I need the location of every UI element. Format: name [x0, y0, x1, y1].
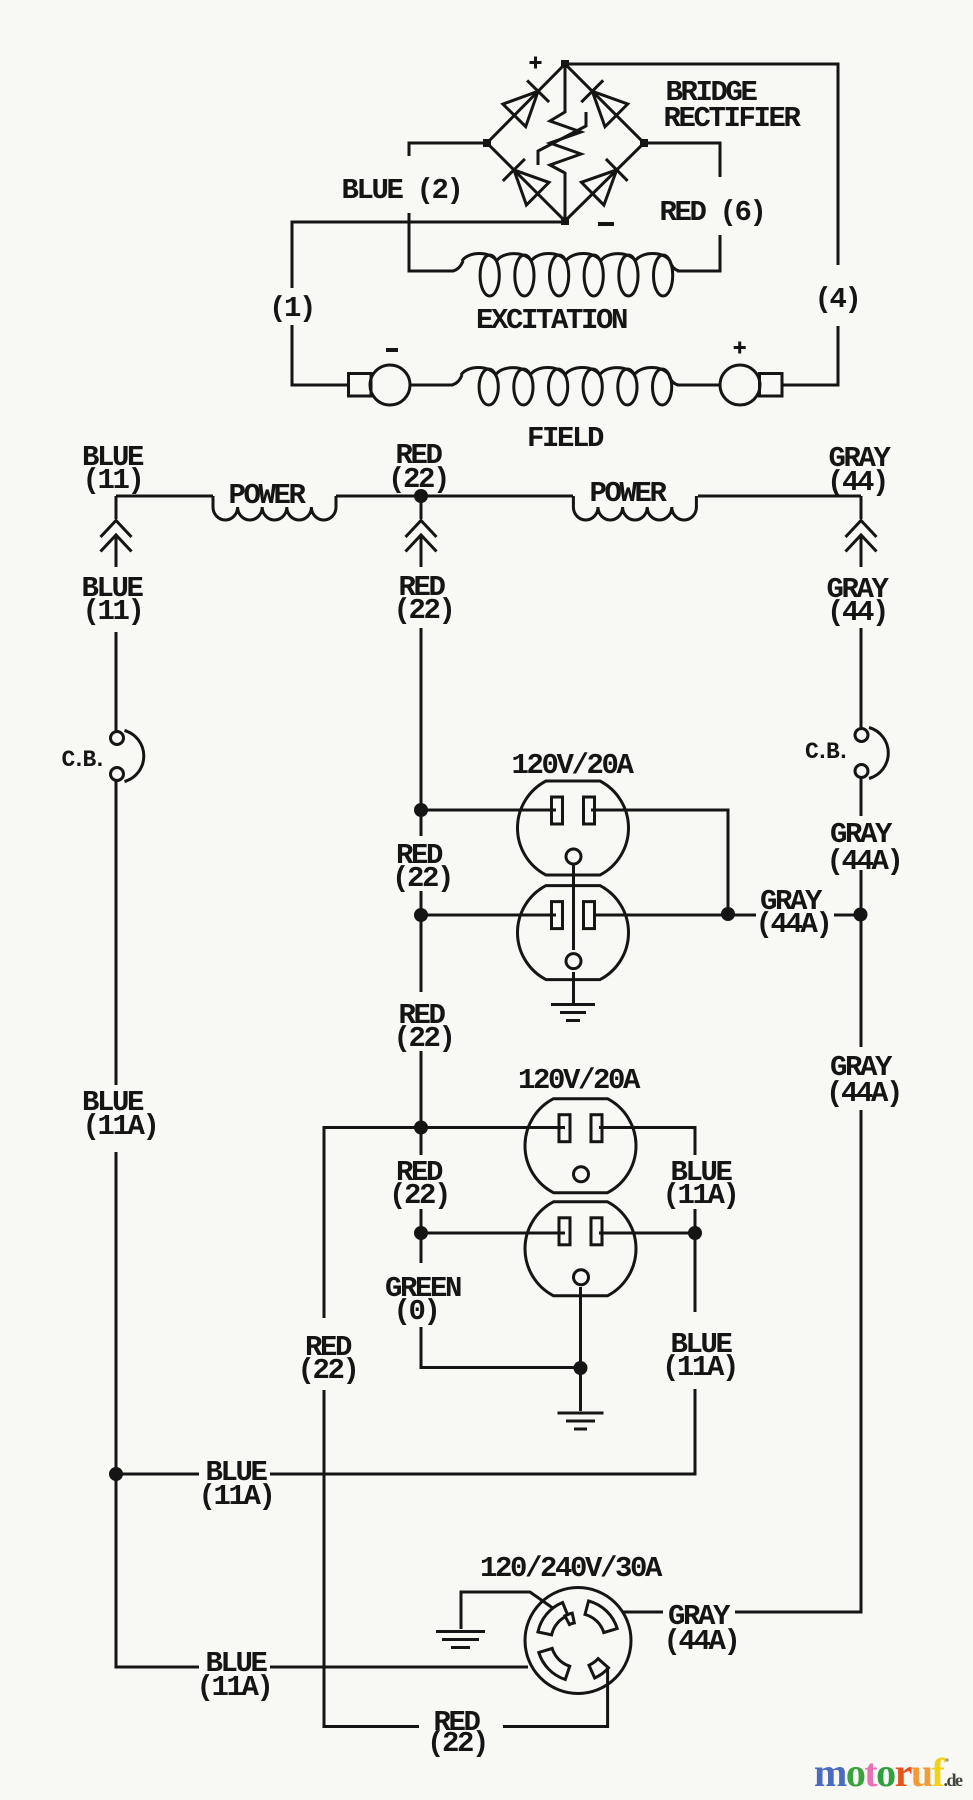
svg-text:POWER: POWER [228, 479, 306, 512]
svg-text:motoruf.de: motoruf.de [814, 1750, 963, 1795]
svg-text:(4): (4) [814, 283, 859, 316]
varistor lead to - node [564, 172, 567, 221]
svg-text:(22): (22) [393, 594, 453, 627]
svg-text:(0): (0) [393, 1295, 438, 1328]
wire outlet3 right lead to corner [599, 1128, 695, 1156]
svg-text:EXCITATION: EXCITATION [476, 304, 627, 337]
svg-text:(22): (22) [297, 1354, 357, 1387]
wire outlet3 top lead [324, 1128, 565, 1319]
svg-text:(11A): (11A) [198, 1480, 273, 1513]
svg-text:BLUE (2): BLUE (2) [341, 174, 461, 207]
label + (field right brush) [734, 342, 746, 354]
wire RED (22) to outlet4 [420, 1209, 423, 1263]
ground symbol duplex 2 [558, 1413, 604, 1429]
svg-text:(11): (11) [82, 464, 142, 497]
svg-text:120/240V/30A: 120/240V/30A [480, 1552, 663, 1585]
slot 30A bottom-left [539, 1648, 570, 1679]
svg-text:(11A): (11A) [662, 1179, 737, 1212]
svg-text:(44A): (44A) [663, 1625, 738, 1658]
circuit breaker C.B. left [111, 731, 144, 782]
node bridge right AC [640, 139, 648, 147]
slot 30A bottom-right [589, 1659, 609, 1678]
wire BLUE (2) upper: left AC node left, stub down [409, 143, 487, 156]
wire GRAY (44) down to breaker [860, 628, 863, 728]
connector chevron BLUE (11) [101, 496, 132, 567]
node - (bridge bottom, DC-) [561, 217, 569, 225]
svg-text:(44A): (44A) [826, 845, 901, 878]
label - (bridge) [598, 222, 614, 226]
wire GRAY (44A) into 30A receptacle [623, 1611, 663, 1614]
wire GRAY (44A) segment [860, 870, 863, 1047]
connector chevron GRAY (44) [846, 496, 877, 567]
wire RED (6) lower to excitation coil [677, 235, 720, 271]
svg-text:(22): (22) [427, 1727, 487, 1760]
wire BLUE (11A) to 30A receptacle [270, 1666, 528, 1669]
wire 30A ground stub [461, 1592, 557, 1629]
bridge rectifier outline (diamond) [487, 64, 644, 221]
wire BLUE (11A) bottom wire left seg [116, 1473, 199, 1476]
inductor POWER winding right [573, 496, 696, 520]
receptacle 120/240V/30A twist-lock outline [525, 1588, 631, 1694]
junction dot outlet4 right [688, 1226, 702, 1240]
junction dot outlet1 hot [414, 803, 428, 817]
brush terminal right (circle) [720, 365, 760, 405]
wire BLUE (11A) right col down to corner [270, 1389, 695, 1474]
wire RED (22) bottom to 30A receptacle [503, 1668, 608, 1727]
wire BLUE (11A) below breaker [115, 781, 118, 1085]
svg-text:(11A): (11A) [82, 1110, 157, 1143]
wire outlet4 left lead [421, 1232, 565, 1235]
svg-text:(44A): (44A) [826, 1077, 901, 1110]
wire BLUE (11) down to breaker [115, 632, 118, 731]
wire BLUE (2) lower to excitation coil [409, 213, 454, 271]
svg-text:120V/20A: 120V/20A [518, 1064, 641, 1097]
svg-text:(11): (11) [82, 595, 142, 628]
ground symbol 30A [436, 1632, 485, 1648]
svg-text:(44A): (44A) [755, 908, 830, 941]
wire power bus left segment [116, 495, 213, 498]
wire RED (6) upper: right AC node right, stub down [644, 143, 720, 177]
receptacle outlet 2 (120V/20A lower) [517, 886, 628, 980]
svg-text:C.B.: C.B. [61, 747, 103, 773]
receptacle outlet 4 (120V/20A lower) [525, 1202, 636, 1296]
receptacle outlet 3 (120V/20A upper) [525, 1099, 636, 1193]
wire RED (22) vertical segment 2 [420, 891, 423, 992]
junction dot GRAY (44A) [854, 908, 868, 922]
inductor EXCITATION coil [453, 253, 679, 296]
svg-text:POWER: POWER [589, 477, 667, 510]
node + (bridge top, DC+) [561, 60, 569, 68]
wire outlet1-outlet2 ground link [572, 864, 575, 950]
wire outlet4 right lead [694, 1209, 697, 1312]
diode D4 (- to right AC) [581, 159, 627, 205]
wire outlet2 neutral lead [594, 914, 756, 917]
svg-text:(22): (22) [393, 1022, 453, 1055]
wire GREEN (0) to ground junction [421, 1327, 581, 1368]
wire power bus mid segment [336, 495, 573, 498]
svg-text:(44): (44) [827, 466, 887, 499]
inductor FIELD coil [452, 367, 678, 405]
inductor POWER winding left [213, 496, 336, 520]
wire outlet1 neutral lead to corner [591, 810, 728, 915]
varistor diagonal strike [538, 112, 586, 165]
svg-text:C.B.: C.B. [805, 739, 847, 765]
diode D2 (right AC to +) [581, 80, 627, 126]
brush terminal right (square) [760, 374, 783, 397]
svg-text:(22): (22) [389, 1179, 449, 1212]
connector chevron RED (22) [406, 496, 437, 567]
slot 30A top-left (ground, L-shaped) [538, 1603, 568, 1635]
wire RED (22) left branch to bottom [324, 1390, 419, 1727]
wire RED (22) vertical segment 1 [420, 628, 423, 836]
wire outlet2 hot lead [421, 914, 556, 917]
wire outlet4 right lead horizontal [599, 1232, 695, 1235]
junction dot RED (22) tap [414, 489, 428, 503]
wire field left lead [410, 384, 453, 387]
circuit breaker C.B. right [855, 728, 888, 779]
junction dot BLUE (11A) left [109, 1467, 123, 1481]
varistor zigzag [550, 112, 581, 173]
svg-text:(44): (44) [827, 596, 887, 629]
svg-text:RED (6): RED (6) [659, 196, 764, 229]
receptacle outlet 1 (120V/20A upper) [517, 781, 628, 875]
junction dot outlet pair neutral [721, 907, 735, 921]
junction dot outlet3 hot [414, 1121, 428, 1135]
junction dot ground GREEN (0) [574, 1361, 588, 1375]
brush terminal left (square) [349, 374, 372, 397]
wire + rail: bridge top to right edge, down [565, 64, 838, 265]
diode D1 (left AC to +) [503, 80, 549, 126]
wire RED (22) vertical segment 3 [420, 1051, 423, 1155]
wire - rail: bridge bottom left, down [292, 222, 565, 288]
wire outlet2 ground to ground symbol [572, 972, 575, 1004]
svg-text:RECTIFIER: RECTIFIER [663, 102, 801, 135]
svg-text:(11A): (11A) [662, 1351, 737, 1384]
wire (1) to field - terminal [292, 325, 349, 385]
wire BLUE (11A) to bottom corner [116, 1152, 199, 1667]
svg-text:(1): (1) [269, 292, 314, 325]
wire power bus right segment [698, 495, 861, 498]
ground symbol duplex 1 [551, 1005, 595, 1021]
junction dot outlet2 hot [414, 908, 428, 922]
wire field right lead [677, 384, 720, 387]
svg-text:FIELD: FIELD [527, 422, 604, 455]
wire (4) to field + terminal [781, 326, 838, 385]
wire outlet1 hot lead [421, 809, 556, 812]
svg-text:120V/20A: 120V/20A [511, 749, 634, 782]
label - (field left brush) [386, 348, 398, 352]
diode D3 (- to left AC) [503, 159, 549, 205]
slot 30A top-right [585, 1601, 617, 1633]
wire GRAY (44A) below breaker [860, 778, 863, 816]
wire GRAY (44A) long segment to 30A receptacle [735, 1110, 861, 1612]
label + (bridge) [530, 57, 542, 69]
wire GRAY (44A) mid to right vertical [834, 914, 861, 917]
node bridge left AC [483, 139, 491, 147]
svg-text:(22): (22) [392, 862, 452, 895]
brush terminal left (circle) [370, 365, 410, 405]
junction dot outlet4 left [414, 1226, 428, 1240]
varistor lead from + node [564, 64, 567, 113]
svg-text:(11A): (11A) [196, 1671, 271, 1704]
wire outlet4 ground to ground symbol [579, 1287, 582, 1411]
